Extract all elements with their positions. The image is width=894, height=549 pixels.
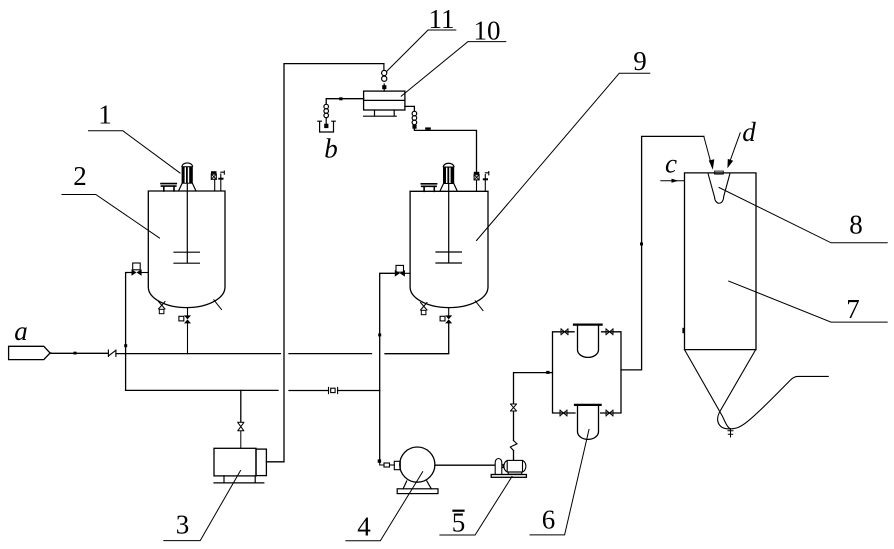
svg-text:9: 9 xyxy=(633,46,647,76)
pump P4 base xyxy=(397,481,438,494)
valve top-left of F6 xyxy=(561,329,568,335)
svg-text:3: 3 xyxy=(176,510,190,540)
pump P4 casing xyxy=(400,447,435,482)
leader label 8 xyxy=(719,188,887,243)
svg-text:7: 7 xyxy=(846,294,860,324)
feed arrow into silo inlet xyxy=(704,136,715,169)
feed valve on R9 top xyxy=(474,172,480,192)
svg-text:8: 8 xyxy=(849,210,863,240)
junction dot xyxy=(73,352,76,355)
svg-text:6: 6 xyxy=(542,505,556,535)
vent nozzle on R9 top xyxy=(483,172,489,192)
silo top flange xyxy=(715,171,724,174)
junction dot xyxy=(124,344,127,347)
trap coil on line to R9 xyxy=(412,111,417,128)
wire condenser right outlet xyxy=(405,106,415,110)
valve V2 on R9 side with actuator xyxy=(395,265,410,276)
agitator shaft and paddle in R2 xyxy=(174,184,199,264)
wire P4 discharge to P5 xyxy=(435,464,495,466)
leader label 5 xyxy=(440,477,512,536)
wire F6 outlet up to silo xyxy=(621,136,704,370)
filter F6 upper cartridge xyxy=(574,325,602,358)
blower 3 body xyxy=(214,448,256,476)
leader label 6 xyxy=(530,430,589,535)
valve top-right of F6 xyxy=(606,329,613,335)
svg-text:1: 1 xyxy=(98,100,112,130)
leader label 2 xyxy=(62,195,160,239)
vessel R2 shell xyxy=(148,191,225,308)
wire to R9 top valve xyxy=(414,129,476,172)
leader label 3 xyxy=(164,471,241,541)
wire main line B xyxy=(126,389,380,391)
bar over label 5 xyxy=(454,510,464,512)
condenser E10 saddle xyxy=(364,110,397,116)
junction dot xyxy=(339,97,342,100)
filter F6 loop frame xyxy=(553,332,622,413)
leader label 11 xyxy=(387,30,456,72)
condenser E10 shell xyxy=(364,91,405,110)
wire R9 side valve to pump suction xyxy=(380,273,395,459)
svg-text:d: d xyxy=(742,117,756,147)
junction dot xyxy=(546,371,549,374)
pump P4 suction dot xyxy=(378,459,381,462)
blower 3 motor attachment xyxy=(256,449,266,476)
level tick on silo wall xyxy=(682,328,685,333)
flex joint on riser xyxy=(510,441,517,451)
agitator motor M1 on R2 xyxy=(179,163,197,191)
svg-text:b: b xyxy=(324,133,338,163)
pump P5 coupling xyxy=(503,465,505,468)
drain cup b xyxy=(318,121,336,132)
pump P5 base plate xyxy=(491,475,526,478)
drain fitting at cone tip xyxy=(728,429,733,438)
wire riser to blower 3 xyxy=(240,391,242,423)
vessel R9 manhole xyxy=(421,184,436,192)
slash nozzle on R2 bottom curve right xyxy=(214,300,222,310)
arrow on c line xyxy=(672,179,679,183)
silo cone and discharge sweep xyxy=(685,350,829,429)
silo vortex pocket xyxy=(708,174,730,203)
blower 3 base xyxy=(214,476,264,483)
leader label 10 xyxy=(401,42,506,97)
svg-text:c: c xyxy=(665,149,677,179)
nozzle valve on R2 top xyxy=(211,171,217,191)
junction bump xyxy=(425,127,431,129)
leader label 7 xyxy=(729,281,888,322)
wire from a xyxy=(50,352,107,354)
bursting coil 11 on condenser inlet xyxy=(382,64,387,92)
inlet flag a xyxy=(9,346,51,359)
vessel R2 manhole xyxy=(161,184,176,191)
svg-text:11: 11 xyxy=(429,4,455,34)
valve on riser xyxy=(511,404,517,411)
wire R2 side valve to down pipe xyxy=(126,273,132,391)
vessel R9 shell xyxy=(410,191,488,307)
wire P5 riser xyxy=(514,373,553,461)
leader label 9 xyxy=(477,73,650,240)
svg-text:a: a xyxy=(14,316,28,346)
pump P5 head xyxy=(495,459,502,474)
drain valve on R9 bottom xyxy=(440,308,452,324)
agitator motor M2 on R9 xyxy=(440,163,458,191)
agitator shaft and paddle in R9 xyxy=(436,184,461,263)
flow element on line B xyxy=(329,387,338,393)
svg-text:2: 2 xyxy=(73,161,87,191)
vent nozzle on R2 top xyxy=(218,171,224,191)
wire main line A xyxy=(116,323,449,353)
drain valve on R2 bottom xyxy=(179,308,191,354)
valve on blower riser xyxy=(238,422,244,448)
pump P5 motor xyxy=(504,460,526,474)
slash nozzle on R9 bottom curve right xyxy=(475,301,483,311)
wire condenser left outlet xyxy=(326,99,363,104)
valve bottom-left of F6 xyxy=(560,410,567,416)
silo T7 shell xyxy=(685,173,757,350)
svg-text:4: 4 xyxy=(357,511,371,541)
wire long riser from blower to condenser top xyxy=(266,64,384,462)
pump P4 suction fittings xyxy=(380,461,401,469)
small valve on R2 bottom curve left xyxy=(159,302,166,314)
junction dot xyxy=(378,333,381,336)
small valve on R9 bottom curve left xyxy=(421,303,428,315)
trap coil on drain to b xyxy=(324,104,329,128)
svg-text:10: 10 xyxy=(474,16,501,46)
check valve xyxy=(108,350,116,357)
valve bottom-right of F6 xyxy=(606,410,613,416)
valve V1 on R2 side with actuator xyxy=(132,263,149,276)
filter F6 lower cartridge xyxy=(575,405,601,440)
leader label 1 xyxy=(89,131,181,173)
leader label 4 xyxy=(346,472,423,541)
junction dot xyxy=(640,242,643,245)
